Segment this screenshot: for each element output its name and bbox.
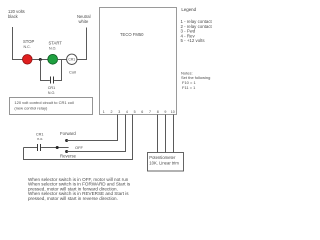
svg-text:Forward: Forward [60, 131, 76, 136]
svg-text:F11 = 1: F11 = 1 [182, 85, 196, 90]
svg-text:OFF: OFF [75, 145, 84, 150]
wire: holding-contact branch down from junction [41, 60, 50, 81]
svg-text:Legend: Legend [181, 7, 196, 12]
relay contact CR1 N.O. (holding) [50, 77, 52, 84]
svg-text:Coil: Coil [69, 70, 76, 75]
svg-text:1: 1 [103, 110, 105, 114]
callout box: 120 volt control circuit note [10, 98, 93, 115]
node junction dot after STOP [39, 58, 42, 61]
wire: 120V left rail [12, 27, 14, 60]
node neutral label: Neutral white [77, 14, 91, 24]
svg-text:9: 9 [164, 110, 166, 114]
svg-text:n.o.: n.o. [37, 137, 43, 141]
svg-text:8: 8 [157, 110, 159, 114]
svg-text:5: 5 [134, 110, 136, 114]
svg-text:START: START [49, 41, 63, 46]
wire: START to coil [58, 59, 67, 61]
svg-text:N.O.: N.O. [49, 47, 56, 51]
relay contact CR1 n.o. (selector circuit) [24, 147, 38, 149]
svg-text:10K. Linear trim: 10K. Linear trim [149, 160, 179, 165]
svg-text:N.O.: N.O. [48, 91, 55, 95]
svg-text:4: 4 [126, 110, 128, 114]
svg-text:7: 7 [149, 110, 151, 114]
legend list [181, 19, 213, 43]
potentiometer box [148, 153, 184, 172]
svg-text:black: black [8, 14, 19, 19]
node Reverse contact [65, 150, 68, 153]
wire: terminal 10 to potentiometer [173, 115, 175, 153]
svg-text:6: 6 [141, 110, 143, 114]
label CR1 N.O. (holding contact) [48, 86, 56, 95]
wire: terminal 9 to potentiometer [165, 115, 167, 153]
svg-text:Potentiometer: Potentiometer [149, 155, 176, 160]
pushbutton START (green, N.O.) [48, 54, 58, 64]
terminal numbers 1-10 [103, 110, 175, 114]
wire: terminal 8 to potentiometer [157, 115, 159, 153]
pushbutton STOP (red, N.C.) [23, 55, 33, 65]
svg-text:CR1: CR1 [36, 133, 44, 137]
VFD drive box TECO FM50 [100, 8, 177, 115]
wire: Reverse to terminal 4 [67, 115, 126, 152]
svg-text:(new control relay): (new control relay) [14, 106, 48, 111]
wire: holding contact up to rung [54, 60, 61, 81]
node selector common junction [56, 146, 59, 149]
svg-text:CR1: CR1 [48, 86, 56, 90]
node Forward contact [65, 139, 68, 142]
wire: contact to selector common [41, 147, 69, 149]
wire: coil to neutral riser [77, 28, 87, 60]
wire: control rung from rail to STOP [12, 59, 23, 61]
svg-text:10: 10 [171, 110, 175, 114]
wire: STOP to START [32, 59, 48, 61]
svg-text:N.C.: N.C. [24, 45, 31, 49]
svg-text:5 - +12 volts: 5 - +12 volts [181, 38, 206, 43]
svg-text:3: 3 [118, 110, 120, 114]
label CR1 n.o. (selector circuit contact) [36, 133, 44, 142]
svg-text:pressed, motor will start in r: pressed, motor will start in reverse dir… [28, 196, 118, 201]
wire: Forward to terminal 3 [67, 115, 118, 141]
svg-text:120 volt control circuit to CR: 120 volt control circuit to CR1 coil [14, 100, 73, 105]
label STOP N.C. [23, 39, 35, 49]
relay coil CR1 [67, 54, 77, 64]
label START N.O. [49, 41, 63, 51]
notes paragraph (bottom) [28, 177, 131, 201]
svg-text:white: white [79, 19, 89, 24]
svg-text:CR1: CR1 [68, 58, 75, 62]
svg-text:Reverse: Reverse [60, 153, 77, 158]
svg-text:TECO FM50: TECO FM50 [120, 32, 144, 37]
svg-text:2: 2 [111, 110, 113, 114]
notes block [181, 71, 210, 90]
node L1 label: 120 volts black [8, 9, 25, 19]
wire: +12V from terminal 5 to contact [24, 115, 133, 160]
svg-text:STOP: STOP [23, 39, 35, 44]
